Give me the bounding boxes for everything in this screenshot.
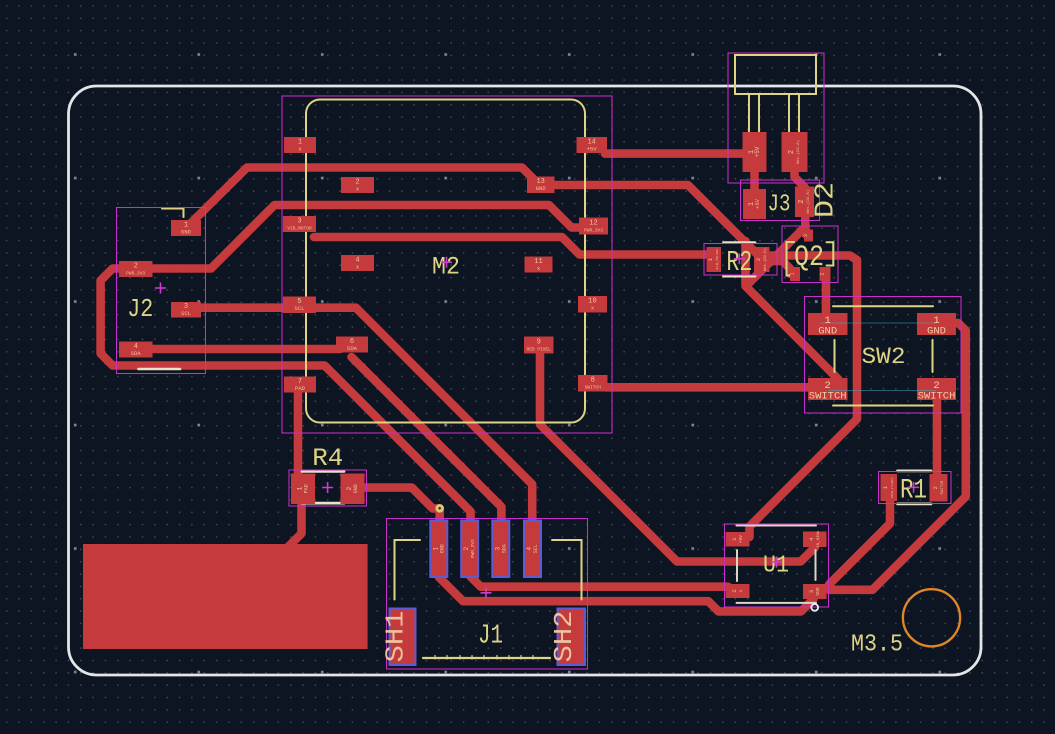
svg-text:RED PIXEL: RED PIXEL [527, 347, 552, 353]
pad texts R2 [707, 249, 720, 270]
courtyard D2 [728, 53, 824, 183]
wire M2.5 SCL to J1.4 [314, 308, 532, 526]
pad R4.1 [291, 474, 315, 505]
pad SH1 [390, 609, 416, 666]
pad U1.4 [803, 532, 827, 548]
anchor cross J2 [155, 283, 166, 294]
courtyard J2 [117, 208, 206, 374]
copper zone fill [83, 544, 368, 649]
pad R1.1 [881, 474, 898, 501]
svg-text:Q2: Q2 [794, 241, 824, 275]
pad SW2.1a [808, 313, 848, 335]
pad D2.1 [743, 132, 767, 172]
wire J2.2 PWR_3V3 to M2.12 [150, 205, 581, 269]
pad SW2.1b [917, 313, 956, 335]
svg-text:SH2: SH2 [549, 611, 579, 663]
wire branch to SW2.2 left [746, 241, 839, 383]
U1 fab dashes [737, 550, 816, 581]
pad M2.12 [579, 218, 608, 235]
pad J3.1 [743, 189, 766, 219]
pad J1.4 [524, 521, 541, 578]
svg-text:GND: GND [181, 229, 192, 236]
svg-text:2: 2 [798, 200, 806, 204]
wire M2.9 RED_PIXEL to U1.4 [540, 350, 815, 562]
module M2 silkscreen outline [306, 100, 585, 423]
wire J3.2 to Q2 top [801, 212, 810, 234]
pad SH2 [558, 609, 586, 666]
mounting hole M3.5 [903, 589, 960, 646]
svg-text:PAD: PAD [304, 484, 310, 493]
courtyard Q2 [782, 226, 838, 283]
pad SW2.2a [808, 378, 848, 400]
wire M2.6 SDA to J1.3 [352, 357, 502, 526]
pad M2.4 [341, 255, 374, 271]
svg-text:SH1: SH1 [380, 611, 410, 663]
wire J2.3 SCL to M2.5 [199, 303, 288, 312]
D2 legs [749, 94, 799, 132]
svg-text:2: 2 [463, 547, 470, 551]
wire Q2 top to vertex [746, 230, 802, 286]
wire SW2.2 right to R1.2 [933, 394, 942, 478]
wire Q2 bottom-right to SW2.1 [822, 276, 831, 318]
svg-text:12: 12 [589, 220, 597, 228]
courtyard M2 [282, 96, 612, 433]
svg-text:SW2: SW2 [862, 344, 906, 370]
svg-text:2: 2 [134, 263, 138, 271]
svg-text:2: 2 [932, 486, 939, 489]
pad J2.2 [119, 261, 153, 277]
svg-text:3: 3 [297, 218, 301, 226]
svg-text:8: 8 [591, 377, 595, 385]
svg-text:RED_PIXEL: RED_PIXEL [891, 477, 895, 498]
pad texts J1 [432, 544, 445, 553]
svg-text:2: 2 [731, 589, 738, 592]
svg-text:R4: R4 [312, 444, 343, 473]
anchor cross U1 [771, 557, 782, 568]
pad M2.1 [284, 137, 316, 153]
courtyard R1 [879, 472, 952, 504]
svg-text:3: 3 [494, 547, 501, 551]
svg-text:PWR_3V3: PWR_3V3 [470, 539, 476, 558]
svg-text:4: 4 [526, 547, 533, 551]
svg-text:SWITCH: SWITCH [585, 385, 602, 391]
pad M2.2 [341, 177, 374, 193]
svg-text:GND: GND [439, 544, 445, 553]
svg-text:+5V: +5V [754, 146, 761, 157]
svg-text:Net-(D2-K): Net-(D2-K) [763, 248, 768, 271]
board edge outline [69, 86, 982, 675]
wire R2.2 to Q2 bottom-left [767, 261, 791, 274]
courtyard SW2 [805, 297, 962, 414]
pad M2.3 [283, 216, 316, 232]
svg-text:GND: GND [927, 326, 946, 338]
via near J1.1 [435, 504, 444, 513]
pad J1.3 [492, 521, 509, 578]
courtyard U1 [725, 524, 829, 607]
pad U1.1 [726, 532, 750, 547]
wire J2.1 GND to M2.13 [186, 168, 536, 229]
wire M2.13 GND to U1.1 via SW2 side [550, 185, 857, 537]
Q2 silk bracket right [827, 242, 834, 265]
svg-text:SWITCH: SWITCH [918, 391, 956, 403]
svg-text:M3.5: M3.5 [851, 632, 903, 659]
wire SW2.1 right to U1.3 [829, 323, 966, 590]
anchor cross M2 [441, 257, 452, 268]
pad M2.5 [283, 297, 316, 314]
U1 fab lines [737, 526, 817, 603]
pad J1.2 [461, 521, 478, 578]
pad J1.1 [430, 521, 447, 578]
anchor cross R4 [322, 482, 333, 493]
pad M2.8 [578, 375, 608, 392]
svg-text:GND: GND [818, 326, 837, 338]
pad R2.1 [707, 247, 722, 272]
anchor cross R1 [908, 482, 919, 493]
svg-text:VIB_MOTOR: VIB_MOTOR [716, 249, 720, 270]
pad texts U1 [731, 535, 744, 543]
pad texts R4 [297, 484, 310, 493]
svg-text:+5V: +5V [754, 198, 761, 209]
svg-text:2: 2 [755, 258, 762, 261]
pad texts D2 [748, 146, 761, 157]
svg-text:SDA: SDA [347, 345, 358, 352]
pad M2.14 [577, 137, 608, 153]
J2 silk mark bottom [139, 368, 181, 371]
anchor cross R2 [734, 253, 745, 264]
pad M2.9 [524, 337, 554, 354]
svg-text:GND: GND [815, 587, 821, 595]
svg-text:SCL: SCL [181, 310, 191, 317]
pad D2.2 [782, 132, 808, 172]
pad M2.6 [336, 337, 368, 353]
pad U1.2 [726, 584, 750, 598]
wire R4.1 to zone [288, 498, 302, 548]
pad M2.11 [525, 257, 553, 273]
courtyard R4 [289, 470, 367, 506]
svg-text:SDA: SDA [501, 544, 507, 553]
wire M2.7 PAD to R4.1 [294, 384, 303, 478]
svg-text:SCL: SCL [533, 544, 539, 553]
wire R4.2 GND to J1.1 via [362, 488, 440, 524]
svg-text:J1: J1 [478, 622, 503, 652]
anchor cross J1 [481, 587, 492, 598]
wire R1.1 to U1.3 [829, 499, 890, 585]
svg-text:x: x [739, 589, 744, 592]
wire M2.14 +5V to D2.1 [605, 149, 746, 158]
pad J2.1 [171, 220, 201, 236]
svg-text:2: 2 [788, 150, 796, 154]
wire M2.3 VIB_MOTOR to R2.1 [314, 237, 708, 255]
svg-text:GND: GND [353, 484, 359, 493]
SW2 silk vertical right [932, 340, 934, 372]
svg-text:PWR_3V3: PWR_3V3 [584, 228, 603, 234]
wire D2.2 to J3.2 [795, 166, 805, 193]
svg-text:J2: J2 [127, 294, 153, 324]
svg-text:J3: J3 [768, 192, 791, 219]
J1 silk bracket left [395, 540, 421, 600]
diode D2 silkscreen body [735, 55, 816, 94]
SW2 silk bottom line [833, 405, 933, 407]
courtyard J1 [387, 519, 588, 670]
svg-text:Net-(D2-A): Net-(D2-A) [796, 140, 801, 164]
svg-text:SWITCH: SWITCH [809, 391, 847, 403]
ratsnest SW2 pads 2 [828, 390, 936, 392]
pad J3.2 [795, 187, 814, 218]
J1 silk bottom line [423, 657, 550, 659]
wire D2.1 to J3.1 [750, 166, 759, 194]
wire J2.2 loop to J1.2 [101, 269, 471, 527]
wire J2.4 SDA to M2.6 [150, 345, 340, 354]
R4 fab bars [302, 471, 344, 503]
wire M2.8 SWITCH to SW2.2 [605, 383, 812, 392]
svg-text:SDA: SDA [131, 350, 142, 357]
svg-text:IN_NINA: IN_NINA [817, 530, 821, 547]
Q2 silk bracket left [787, 242, 795, 276]
pad J2.4 [119, 342, 153, 358]
svg-text:GND: GND [536, 185, 547, 192]
svg-text:9: 9 [537, 339, 541, 347]
pad R4.2 [341, 474, 365, 505]
svg-text:1: 1 [790, 272, 796, 275]
pad J2.3 [171, 302, 201, 318]
svg-text:2: 2 [820, 272, 826, 275]
wire J1.1 GND to U1.3 [439, 570, 814, 611]
svg-text:3: 3 [808, 590, 815, 593]
svg-text:1: 1 [432, 547, 439, 551]
J1 silk ticks [435, 656, 533, 660]
svg-text:SWITCH: SWITCH [941, 481, 945, 495]
svg-text:VIB_MOTOR: VIB_MOTOR [287, 226, 312, 232]
svg-text:SCL: SCL [295, 305, 305, 312]
svg-text:+5V: +5V [738, 535, 744, 543]
J2 silk mark top [162, 209, 184, 218]
pad texts Q2 [803, 234, 809, 237]
svg-text:PAD: PAD [295, 385, 306, 392]
SW2 silk top line [833, 305, 933, 307]
wire J1.2 to U1.2 [470, 572, 728, 587]
pad M2.7 [284, 377, 316, 393]
courtyard J3 [741, 180, 820, 221]
svg-text:1: 1 [297, 487, 304, 491]
pad M2.10 [578, 296, 607, 313]
pad Q2.1 [790, 267, 800, 281]
R2 fab bars [724, 243, 756, 277]
pad M2.13 [527, 177, 555, 194]
svg-text:PWR_3V3: PWR_3V3 [126, 271, 145, 277]
svg-text:2: 2 [346, 487, 353, 491]
svg-text:Net-(D2-K): Net-(D2-K) [806, 190, 811, 214]
J1 silk bracket right [552, 540, 582, 600]
pad Q2.3 [804, 230, 813, 242]
svg-text:3: 3 [803, 234, 809, 237]
pad U1.3 [803, 584, 827, 599]
pad R2.2 [754, 247, 770, 272]
pad Q2.2 [820, 267, 831, 281]
test point ring near U1.3 [811, 604, 818, 611]
svg-text:D2: D2 [812, 182, 842, 218]
pad R1.2 [930, 474, 948, 502]
pad texts R1 [882, 477, 895, 498]
pad texts J3 [748, 198, 761, 209]
R1 fab bars [898, 471, 932, 504]
SW2 silk vertical left [834, 340, 836, 372]
courtyard R2 [704, 244, 777, 276]
svg-text:+5V: +5V [587, 146, 598, 153]
ratsnest SW2 pads 1 [820, 322, 936, 324]
pad SW2.2b [917, 378, 956, 400]
